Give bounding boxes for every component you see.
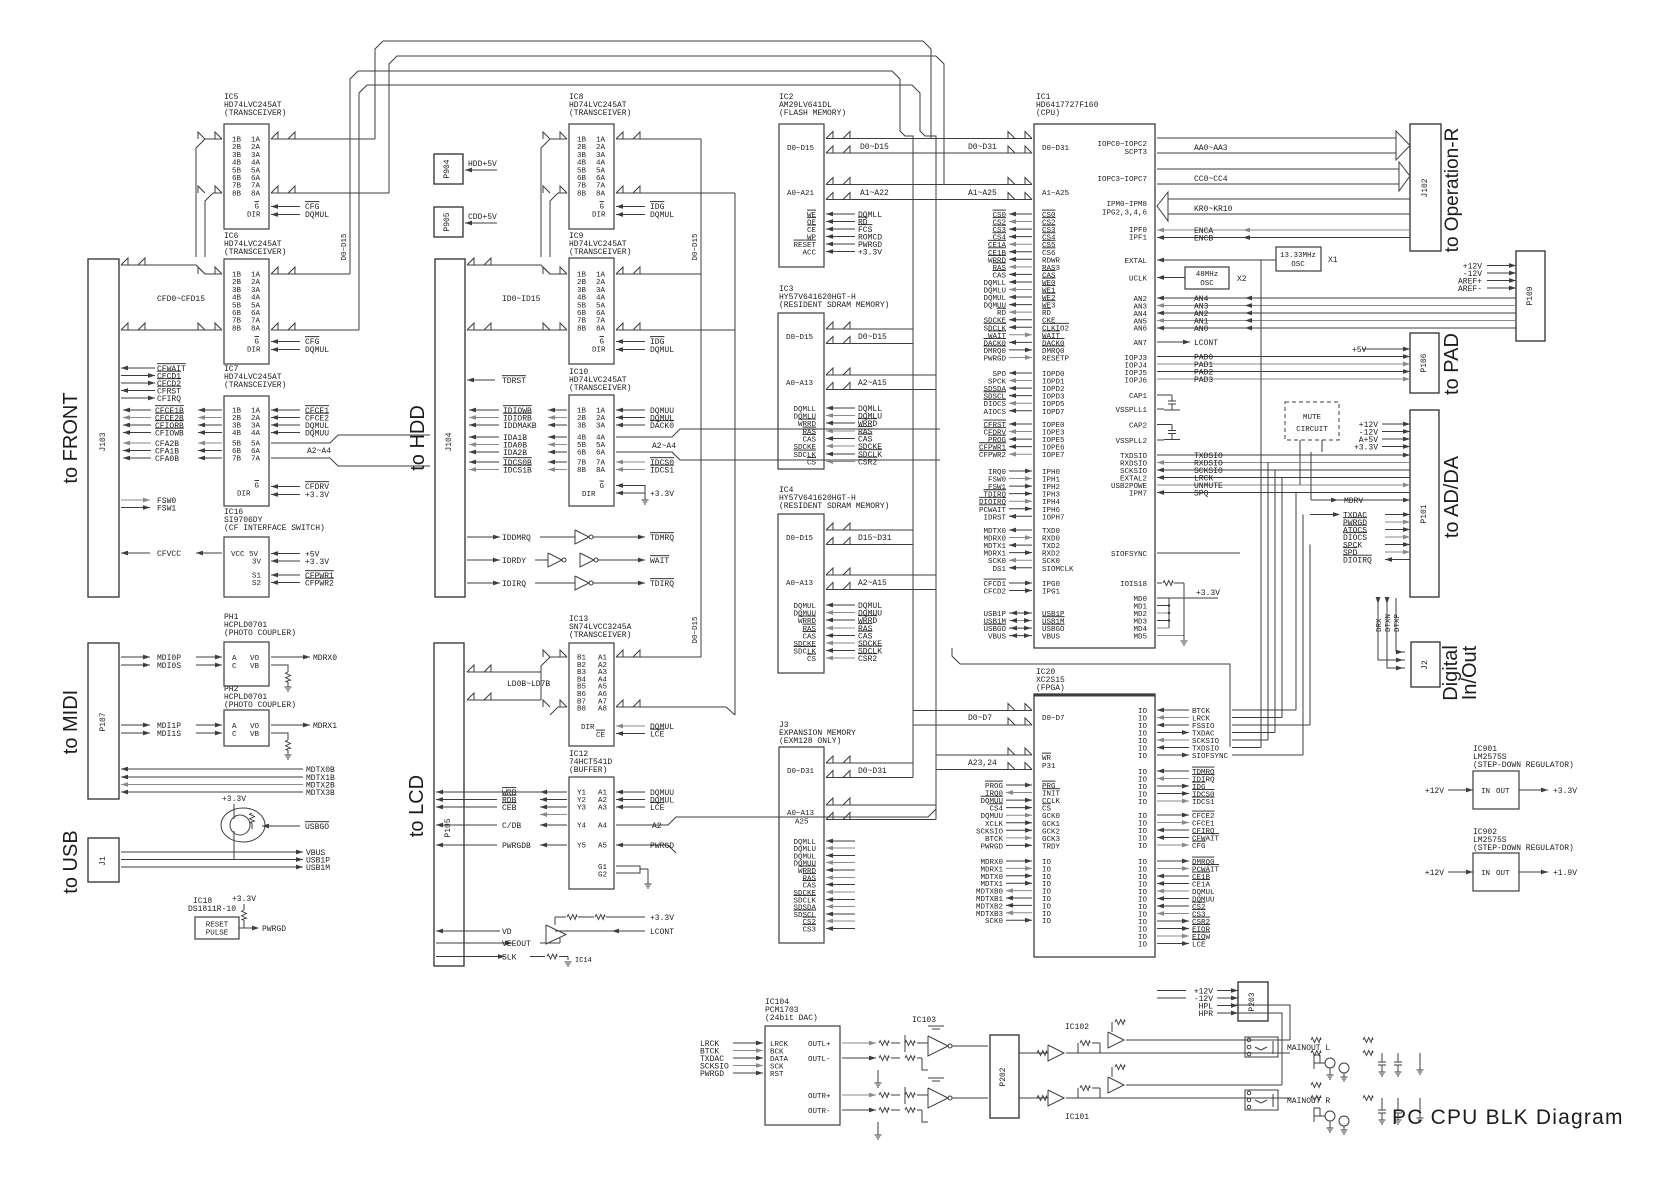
svg-text:IO: IO bbox=[1138, 942, 1148, 950]
svg-text:IO: IO bbox=[1138, 753, 1148, 761]
svg-text:G2: G2 bbox=[598, 872, 607, 880]
svg-text:MDI1S: MDI1S bbox=[157, 730, 181, 739]
svg-text:+3.3V: +3.3V bbox=[222, 795, 246, 804]
svg-text:8B: 8B bbox=[232, 325, 242, 333]
svg-text:J104: J104 bbox=[445, 432, 454, 451]
svg-text:LCE: LCE bbox=[650, 804, 665, 813]
svg-text:C/DB: C/DB bbox=[502, 822, 521, 831]
svg-text:48MHz: 48MHz bbox=[1196, 271, 1219, 279]
svg-text:8A: 8A bbox=[251, 325, 261, 333]
svg-text:G: G bbox=[599, 204, 604, 212]
svg-text:A0~A21: A0~A21 bbox=[787, 190, 815, 198]
svg-text:PWRGD: PWRGD bbox=[262, 925, 286, 934]
svg-text:(CF INTERFACE SWITCH): (CF INTERFACE SWITCH) bbox=[224, 524, 325, 533]
svg-text:P905: P905 bbox=[443, 212, 452, 231]
svg-text:CAP1: CAP1 bbox=[1129, 393, 1148, 401]
svg-text:8A: 8A bbox=[596, 325, 606, 333]
svg-text:SIOFSYNC: SIOFSYNC bbox=[1192, 753, 1229, 761]
svg-text:IPG2,3,4,6: IPG2,3,4,6 bbox=[1102, 210, 1148, 218]
svg-text:CFPWR2: CFPWR2 bbox=[979, 452, 1006, 460]
svg-text:P203: P203 bbox=[1248, 992, 1257, 1011]
svg-text:+3.3V: +3.3V bbox=[1553, 787, 1577, 796]
svg-text:DACK0: DACK0 bbox=[650, 422, 674, 431]
svg-text:MDRV: MDRV bbox=[1344, 497, 1363, 506]
svg-text:A: A bbox=[232, 723, 237, 731]
svg-text:SDCKE: SDCKE bbox=[793, 444, 816, 452]
svg-text:PULSE: PULSE bbox=[206, 930, 229, 938]
svg-text:X1: X1 bbox=[1328, 256, 1338, 265]
svg-text:SIOMCLK: SIOMCLK bbox=[1042, 566, 1074, 574]
svg-text:A3: A3 bbox=[598, 805, 608, 813]
svg-text:A2~A4: A2~A4 bbox=[307, 447, 331, 456]
svg-text:DIR: DIR bbox=[247, 347, 261, 355]
svg-text:4B: 4B bbox=[232, 430, 242, 438]
svg-text:P105: P105 bbox=[444, 818, 453, 837]
svg-text:VD: VD bbox=[502, 928, 512, 937]
svg-text:IDCS1: IDCS1 bbox=[1192, 799, 1215, 807]
svg-text:IPM0~IPM8: IPM0~IPM8 bbox=[1106, 201, 1147, 209]
svg-text:C: C bbox=[232, 731, 237, 739]
svg-text:OUTL+: OUTL+ bbox=[808, 1041, 831, 1049]
svg-text:VO: VO bbox=[250, 655, 260, 663]
svg-text:(RESIDENT SDRAM MEMORY): (RESIDENT SDRAM MEMORY) bbox=[779, 502, 889, 511]
svg-text:HDD+5V: HDD+5V bbox=[468, 160, 497, 169]
svg-text:DQMUU: DQMUU bbox=[305, 430, 329, 439]
svg-text:ID0~ID15: ID0~ID15 bbox=[502, 295, 541, 304]
svg-text:+3.3V: +3.3V bbox=[858, 249, 882, 258]
svg-text:IDRST: IDRST bbox=[983, 514, 1006, 522]
svg-text:(PHOTO COUPLER): (PHOTO COUPLER) bbox=[224, 629, 296, 638]
svg-text:HPR: HPR bbox=[1199, 1010, 1214, 1019]
svg-text:TDRST: TDRST bbox=[502, 377, 526, 386]
svg-text:CS: CS bbox=[807, 460, 817, 468]
svg-text:P107: P107 bbox=[99, 712, 108, 731]
svg-text:CSR2: CSR2 bbox=[858, 459, 877, 468]
svg-text:MAINOUT R: MAINOUT R bbox=[1287, 1097, 1330, 1106]
svg-text:G: G bbox=[599, 483, 604, 491]
svg-text:IC103: IC103 bbox=[912, 1016, 936, 1025]
svg-text:(FPGA): (FPGA) bbox=[1036, 684, 1065, 693]
svg-text:CIRCUIT: CIRCUIT bbox=[1296, 426, 1328, 434]
svg-text:IN: IN bbox=[1481, 870, 1490, 878]
svg-text:DS1: DS1 bbox=[992, 566, 1006, 574]
svg-text:CFIOWB: CFIOWB bbox=[155, 430, 184, 439]
svg-text:OUTR+: OUTR+ bbox=[808, 1093, 831, 1101]
svg-text:OUTR-: OUTR- bbox=[808, 1108, 831, 1116]
svg-text:Y3: Y3 bbox=[577, 805, 587, 813]
svg-text:DIR: DIR bbox=[581, 724, 595, 732]
svg-text:D0~D31: D0~D31 bbox=[787, 768, 815, 776]
svg-text:G: G bbox=[254, 204, 259, 212]
svg-text:to MIDI: to MIDI bbox=[60, 690, 82, 754]
svg-text:VO: VO bbox=[250, 723, 260, 731]
svg-text:DS1811R-10: DS1811R-10 bbox=[188, 905, 236, 914]
svg-text:VB: VB bbox=[250, 663, 260, 671]
svg-text:IC101: IC101 bbox=[1065, 1113, 1089, 1122]
svg-text:to LCD: to LCD bbox=[406, 775, 428, 837]
svg-text:(TRANSCEIVER): (TRANSCEIVER) bbox=[569, 631, 631, 640]
svg-text:TDIRQ: TDIRQ bbox=[650, 580, 674, 589]
svg-text:P109: P109 bbox=[1526, 286, 1535, 305]
svg-text:CAP2: CAP2 bbox=[1129, 423, 1147, 431]
svg-text:X2: X2 bbox=[1237, 275, 1247, 284]
svg-text:AREF-: AREF- bbox=[1458, 285, 1482, 294]
svg-text:A25: A25 bbox=[795, 819, 809, 827]
svg-text:TRDY: TRDY bbox=[1042, 843, 1061, 851]
svg-text:A2~A15: A2~A15 bbox=[858, 579, 887, 588]
svg-text:8A: 8A bbox=[251, 190, 261, 198]
svg-text:A: A bbox=[232, 655, 237, 663]
svg-text:A0~A13: A0~A13 bbox=[787, 810, 815, 818]
svg-text:+3.3V: +3.3V bbox=[650, 490, 674, 499]
svg-text:DIR: DIR bbox=[247, 212, 261, 220]
svg-text:DIR: DIR bbox=[237, 491, 251, 499]
svg-text:IC102: IC102 bbox=[1065, 1023, 1089, 1032]
svg-text:VB: VB bbox=[250, 731, 260, 739]
svg-text:+12V: +12V bbox=[1425, 787, 1444, 796]
svg-text:CFA0B: CFA0B bbox=[155, 455, 179, 464]
svg-text:+1.9V: +1.9V bbox=[1553, 869, 1577, 878]
svg-text:VBUS: VBUS bbox=[988, 634, 1007, 642]
svg-text:DTXP: DTXP bbox=[1394, 613, 1402, 632]
svg-text:IOPD7: IOPD7 bbox=[1042, 409, 1065, 417]
svg-text:(TRANSCEIVER): (TRANSCEIVER) bbox=[224, 248, 286, 257]
svg-text:CFG: CFG bbox=[1192, 843, 1206, 851]
svg-text:G: G bbox=[254, 339, 259, 347]
svg-text:CFCD2: CFCD2 bbox=[983, 589, 1006, 597]
svg-text:EXTAL: EXTAL bbox=[1124, 258, 1147, 266]
svg-text:IO: IO bbox=[1138, 843, 1148, 851]
svg-text:+3.3V: +3.3V bbox=[650, 914, 674, 923]
svg-text:IPM7: IPM7 bbox=[1129, 491, 1147, 499]
svg-text:LCE: LCE bbox=[1192, 942, 1206, 950]
svg-text:D0~D15: D0~D15 bbox=[692, 233, 700, 261]
svg-text:WR: WR bbox=[1042, 755, 1052, 763]
svg-text:MDI0S: MDI0S bbox=[157, 662, 181, 671]
svg-text:MD5: MD5 bbox=[1133, 634, 1147, 642]
svg-text:OSC: OSC bbox=[1200, 280, 1214, 288]
svg-text:DTXN: DTXN bbox=[1385, 614, 1393, 632]
svg-text:DIR: DIR bbox=[592, 347, 606, 355]
svg-text:CFIRQ: CFIRQ bbox=[157, 395, 181, 404]
svg-text:P904: P904 bbox=[443, 159, 452, 178]
svg-text:PC CPU BLK Diagram: PC CPU BLK Diagram bbox=[1392, 1106, 1624, 1129]
svg-text:to USB: to USB bbox=[60, 830, 82, 893]
svg-text:RESETP: RESETP bbox=[1042, 355, 1070, 363]
svg-text:7A: 7A bbox=[251, 456, 261, 464]
svg-text:3A: 3A bbox=[596, 423, 606, 431]
svg-text:Y4: Y4 bbox=[577, 823, 587, 831]
svg-text:AN0: AN0 bbox=[1194, 325, 1209, 334]
svg-text:A23,24: A23,24 bbox=[968, 759, 997, 768]
svg-text:A2~A4: A2~A4 bbox=[652, 442, 676, 451]
svg-text:D15~D31: D15~D31 bbox=[858, 534, 892, 543]
svg-text:SLK: SLK bbox=[502, 954, 517, 963]
svg-text:(TRANSCEIVER): (TRANSCEIVER) bbox=[224, 381, 286, 390]
svg-text:(TRANSCEIVER): (TRANSCEIVER) bbox=[224, 109, 286, 118]
svg-text:6A: 6A bbox=[596, 450, 606, 458]
svg-text:(BUFFER): (BUFFER) bbox=[569, 766, 607, 775]
svg-text:DQMUL: DQMUL bbox=[650, 211, 674, 220]
svg-text:VBUS: VBUS bbox=[1042, 634, 1061, 642]
svg-text:PWRGD: PWRGD bbox=[700, 1070, 724, 1079]
svg-text:to Operation-R: to Operation-R bbox=[1442, 128, 1463, 253]
svg-text:USB1M: USB1M bbox=[306, 864, 330, 873]
svg-text:IDDMRQ: IDDMRQ bbox=[502, 534, 531, 543]
svg-text:(24bit DAC): (24bit DAC) bbox=[765, 1014, 818, 1023]
svg-text:(STEP-DOWN REGULATOR): (STEP-DOWN REGULATOR) bbox=[1473, 844, 1574, 853]
svg-text:+5V: +5V bbox=[1352, 346, 1367, 355]
svg-text:PWRGD: PWRGD bbox=[980, 843, 1003, 851]
svg-text:LCONT: LCONT bbox=[650, 928, 674, 937]
svg-text:AA0~AA3: AA0~AA3 bbox=[1194, 144, 1228, 153]
svg-text:WRRD: WRRD bbox=[798, 421, 817, 429]
svg-text:AN7: AN7 bbox=[1133, 340, 1147, 348]
svg-text:D0~D15: D0~D15 bbox=[860, 143, 889, 152]
svg-text:CE: CE bbox=[596, 732, 606, 740]
svg-text:SPQ: SPQ bbox=[1194, 490, 1209, 499]
svg-text:CFD0~CFD15: CFD0~CFD15 bbox=[157, 295, 205, 304]
svg-text:IOPC3~IOPC7: IOPC3~IOPC7 bbox=[1097, 176, 1147, 184]
svg-text:A8: A8 bbox=[598, 706, 607, 714]
svg-text:IC14: IC14 bbox=[575, 957, 592, 965]
svg-text:WAIT: WAIT bbox=[650, 557, 669, 566]
svg-text:to PAD: to PAD bbox=[1441, 333, 1463, 395]
svg-text:IN: IN bbox=[1481, 788, 1490, 796]
svg-text:RST: RST bbox=[770, 1071, 784, 1079]
svg-text:PWRGD: PWRGD bbox=[650, 842, 674, 851]
svg-text:(RESIDENT SDRAM MEMORY): (RESIDENT SDRAM MEMORY) bbox=[779, 301, 889, 310]
svg-text:S2: S2 bbox=[252, 580, 261, 588]
svg-text:J2: J2 bbox=[1421, 660, 1430, 670]
svg-text:3V: 3V bbox=[252, 559, 262, 567]
svg-text:D0~D15: D0~D15 bbox=[787, 145, 815, 153]
svg-text:CSR2: CSR2 bbox=[858, 655, 877, 664]
svg-text:VSSPLL2: VSSPLL2 bbox=[1115, 438, 1147, 446]
svg-text:ENCB: ENCB bbox=[1194, 235, 1213, 244]
svg-text:IDCS1B: IDCS1B bbox=[503, 467, 532, 476]
svg-text:to HDD: to HDD bbox=[407, 405, 429, 471]
svg-text:ACC: ACC bbox=[802, 250, 816, 258]
svg-text:C: C bbox=[232, 663, 237, 671]
svg-text:D0~D31: D0~D31 bbox=[1042, 145, 1070, 153]
svg-text:CFVCC: CFVCC bbox=[157, 550, 181, 559]
svg-text:8B: 8B bbox=[577, 190, 587, 198]
svg-text:6B: 6B bbox=[577, 450, 587, 458]
svg-text:D0~D15: D0~D15 bbox=[858, 333, 887, 342]
svg-text:LCE: LCE bbox=[650, 731, 665, 740]
svg-text:+3.3V: +3.3V bbox=[1354, 444, 1378, 453]
svg-text:IDDMAKB: IDDMAKB bbox=[503, 422, 537, 431]
svg-text:+3.3V: +3.3V bbox=[232, 895, 256, 904]
svg-text:DQMUL: DQMUL bbox=[305, 211, 329, 220]
svg-text:A0~A13: A0~A13 bbox=[786, 580, 814, 588]
svg-text:FSW1: FSW1 bbox=[157, 505, 176, 514]
svg-text:(TRANSCEIVER): (TRANSCEIVER) bbox=[569, 248, 631, 257]
svg-text:MDRX1: MDRX1 bbox=[313, 722, 337, 731]
svg-text:P106: P106 bbox=[1420, 353, 1429, 372]
svg-text:CC0~CC4: CC0~CC4 bbox=[1194, 175, 1228, 184]
svg-text:PAD3: PAD3 bbox=[1194, 376, 1213, 385]
svg-text:A1~A25: A1~A25 bbox=[968, 189, 997, 198]
svg-text:7B: 7B bbox=[232, 456, 242, 464]
svg-text:DIOIRQ: DIOIRQ bbox=[1343, 557, 1372, 566]
svg-text:CS3: CS3 bbox=[802, 927, 816, 935]
svg-text:IO: IO bbox=[1042, 918, 1052, 926]
svg-text:J1: J1 bbox=[99, 856, 108, 866]
svg-text:G: G bbox=[599, 339, 604, 347]
svg-text:TDMRQ: TDMRQ bbox=[650, 534, 674, 543]
svg-text:A2: A2 bbox=[652, 822, 662, 831]
svg-text:IOPC0~IOPC2: IOPC0~IOPC2 bbox=[1097, 141, 1147, 149]
svg-text:DIR: DIR bbox=[582, 491, 596, 499]
svg-text:DQMUL: DQMUL bbox=[305, 346, 329, 355]
svg-text:(TRANSCEIVER): (TRANSCEIVER) bbox=[569, 109, 631, 118]
svg-text:8B: 8B bbox=[577, 467, 587, 475]
svg-text:CS: CS bbox=[807, 656, 817, 664]
svg-text:MAINOUT L: MAINOUT L bbox=[1287, 1044, 1330, 1053]
svg-text:J102: J102 bbox=[1421, 178, 1430, 197]
svg-text:In/Out: In/Out bbox=[1459, 645, 1481, 700]
svg-text:(EXM128 ONLY): (EXM128 ONLY) bbox=[779, 737, 841, 746]
svg-text:A1~A25: A1~A25 bbox=[1042, 190, 1070, 198]
svg-text:AIOCS: AIOCS bbox=[983, 409, 1006, 417]
svg-text:OSC: OSC bbox=[1291, 261, 1305, 269]
svg-text:DQMUL: DQMUL bbox=[650, 346, 674, 355]
svg-text:IPF1: IPF1 bbox=[1129, 235, 1148, 243]
svg-text:WRRD: WRRD bbox=[798, 618, 817, 626]
svg-text:P202: P202 bbox=[999, 1067, 1008, 1086]
svg-text:(TRANSCEIVER): (TRANSCEIVER) bbox=[569, 384, 631, 393]
svg-text:LD0B~LD7B: LD0B~LD7B bbox=[507, 680, 550, 689]
svg-text:IOPJ6: IOPJ6 bbox=[1124, 378, 1147, 386]
svg-text:4A: 4A bbox=[251, 430, 261, 438]
svg-text:8B: 8B bbox=[577, 325, 587, 333]
svg-text:to FRONT: to FRONT bbox=[60, 392, 82, 483]
svg-text:IO: IO bbox=[1138, 799, 1148, 807]
svg-text:A0~A13: A0~A13 bbox=[786, 380, 814, 388]
svg-text:OUT: OUT bbox=[1496, 788, 1510, 796]
svg-text:RESET: RESET bbox=[206, 922, 229, 930]
svg-text:IOPE7: IOPE7 bbox=[1042, 452, 1065, 460]
svg-text:D0~D15: D0~D15 bbox=[692, 616, 700, 644]
svg-text:IOPH7: IOPH7 bbox=[1042, 514, 1065, 522]
svg-text:DRX: DRX bbox=[1376, 618, 1384, 632]
svg-text:IDIRQ: IDIRQ bbox=[502, 580, 526, 589]
svg-text:D0~D7: D0~D7 bbox=[968, 714, 992, 723]
svg-text:PWRGDB: PWRGDB bbox=[502, 842, 531, 851]
svg-text:A2~A15: A2~A15 bbox=[858, 379, 887, 388]
svg-text:MUTE: MUTE bbox=[1303, 414, 1322, 422]
svg-text:UCLK: UCLK bbox=[1129, 276, 1148, 284]
svg-text:+3.3V: +3.3V bbox=[305, 491, 329, 500]
svg-text:LCONT: LCONT bbox=[1194, 339, 1218, 348]
svg-text:CFPWR2: CFPWR2 bbox=[305, 580, 334, 589]
svg-text:D0~D7: D0~D7 bbox=[1042, 715, 1065, 723]
svg-text:IDCS1: IDCS1 bbox=[650, 467, 674, 476]
svg-text:SCPT3: SCPT3 bbox=[1124, 149, 1147, 157]
svg-text:D0~D15: D0~D15 bbox=[786, 535, 814, 543]
svg-text:IOIS18: IOIS18 bbox=[1120, 581, 1147, 589]
svg-text:(STEP-DOWN REGULATOR): (STEP-DOWN REGULATOR) bbox=[1473, 761, 1574, 770]
svg-text:D0~D15: D0~D15 bbox=[341, 233, 349, 261]
svg-text:B8: B8 bbox=[577, 706, 586, 714]
svg-text:OUTL-: OUTL- bbox=[808, 1056, 831, 1064]
svg-text:(CPU): (CPU) bbox=[1036, 109, 1060, 118]
svg-text:A5: A5 bbox=[598, 843, 608, 851]
svg-text:DIR: DIR bbox=[592, 212, 606, 220]
svg-text:8B: 8B bbox=[232, 190, 242, 198]
svg-text:+12V: +12V bbox=[1425, 869, 1444, 878]
svg-text:AN6: AN6 bbox=[1133, 326, 1147, 334]
svg-text:CDD+5V: CDD+5V bbox=[468, 213, 497, 222]
svg-text:CEB: CEB bbox=[502, 804, 517, 813]
svg-text:MDTX3B: MDTX3B bbox=[306, 789, 335, 798]
svg-text:D0~D31: D0~D31 bbox=[858, 767, 887, 776]
svg-text:8A: 8A bbox=[596, 190, 606, 198]
svg-text:MDRX0: MDRX0 bbox=[313, 654, 337, 663]
svg-text:D0~D15: D0~D15 bbox=[786, 334, 814, 342]
svg-text:13.33MHz: 13.33MHz bbox=[1280, 252, 1316, 260]
svg-text:to AD/DA: to AD/DA bbox=[1441, 455, 1463, 538]
svg-text:SIOFSYNC: SIOFSYNC bbox=[1111, 551, 1148, 559]
svg-text:IPG1: IPG1 bbox=[1042, 589, 1061, 597]
svg-text:8A: 8A bbox=[596, 467, 606, 475]
svg-text:(FLASH MEMORY): (FLASH MEMORY) bbox=[779, 109, 846, 118]
svg-text:SCK0: SCK0 bbox=[985, 918, 1004, 926]
svg-text:VSSPLL1: VSSPLL1 bbox=[1115, 407, 1147, 415]
svg-text:VEEOUT: VEEOUT bbox=[502, 940, 531, 949]
svg-text:PWRGD: PWRGD bbox=[983, 355, 1006, 363]
svg-text:A4: A4 bbox=[598, 823, 608, 831]
svg-text:D0~D31: D0~D31 bbox=[968, 143, 997, 152]
svg-text:USBGO: USBGO bbox=[305, 823, 329, 832]
svg-text:G: G bbox=[254, 483, 259, 491]
svg-text:J103: J103 bbox=[99, 432, 108, 451]
svg-text:(PHOTO COUPLER): (PHOTO COUPLER) bbox=[224, 701, 296, 710]
svg-text:P31: P31 bbox=[1042, 763, 1056, 771]
svg-text:P101: P101 bbox=[1420, 504, 1429, 523]
svg-text:+3.3V: +3.3V bbox=[305, 558, 329, 567]
svg-text:IDA2B: IDA2B bbox=[503, 449, 527, 458]
svg-text:+3.3V: +3.3V bbox=[1196, 589, 1220, 598]
svg-text:IDRDY: IDRDY bbox=[502, 557, 526, 566]
svg-text:KR0~KR10: KR0~KR10 bbox=[1194, 205, 1233, 214]
svg-text:3B: 3B bbox=[577, 423, 587, 431]
svg-text:A1~A22: A1~A22 bbox=[860, 189, 889, 198]
svg-text:Y5: Y5 bbox=[577, 843, 587, 851]
svg-text:OUT: OUT bbox=[1496, 870, 1510, 878]
